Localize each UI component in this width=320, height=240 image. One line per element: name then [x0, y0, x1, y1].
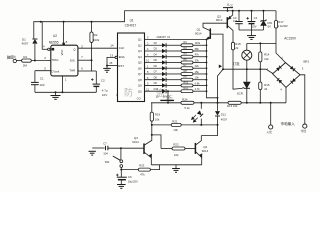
wire to R23: [121, 169, 138, 171]
wire Q3 collector: [144, 135, 152, 145]
svg-text:Q6: Q6: [138, 66, 142, 70]
resistor R18 2k: [231, 42, 234, 50]
capacitor C7 104: [105, 146, 107, 151]
node: R2 top: [91, 21, 93, 23]
svg-text:68k: 68k: [195, 47, 200, 51]
svg-text:Q3: Q3: [138, 49, 142, 53]
wire to R14: [259, 43, 261, 52]
svg-text:Q2: Q2: [138, 43, 142, 47]
wire rail to zener DW: [263, 11, 265, 21]
bridge diode lower-right: [291, 78, 296, 83]
svg-text:AC220V: AC220V: [284, 37, 297, 41]
wire to R22: [152, 135, 161, 149]
svg-text:10µ/25V: 10µ/25V: [128, 180, 138, 184]
wire common line (R24 / R13): [151, 102, 181, 104]
svg-text:33k: 33k: [195, 58, 200, 62]
svg-text:市电输入: 市电输入: [281, 121, 296, 126]
svg-text:11k: 11k: [264, 57, 269, 61]
svg-text:14: 14: [110, 44, 114, 48]
svg-text:Q7: Q7: [138, 72, 142, 76]
wire to C2: [95, 71, 97, 84]
wire plate to R1: [17, 60, 22, 62]
wire line to R19: [151, 103, 153, 112]
svg-text:2M: 2M: [23, 63, 28, 67]
resistor R9 10k: [181, 78, 193, 81]
svg-text:10k: 10k: [195, 76, 200, 80]
wire C7 to Q3 base: [108, 147, 144, 149]
wire joining C3 C4 DW bottoms: [239, 29, 264, 31]
svg-text:47k: 47k: [140, 173, 145, 177]
svg-text:C4: C4: [254, 16, 258, 20]
svg-text:D12: D12: [221, 112, 227, 116]
node pin7 DIS: [91, 59, 93, 61]
wire collector jog to D12 node: [201, 125, 217, 136]
svg-text:DW: DW: [267, 21, 272, 25]
diode D1 1N4007: [32, 38, 37, 40]
bus wire collecting ladder rows: [206, 40, 208, 92]
svg-text:C1: C1: [40, 77, 44, 81]
terminal: touch electrode: [13, 59, 16, 62]
wire Q1 base down to lamp line: [211, 34, 223, 69]
wire RST pin15: [107, 65, 118, 67]
wire rail to C4: [251, 11, 253, 22]
resistor R2 100k: [90, 32, 93, 43]
ground: [103, 67, 111, 69]
wire Q1 collector to Q2 base: [203, 23, 227, 30]
diode D8: [162, 78, 166, 82]
svg-text:4007: 4007: [221, 118, 228, 122]
svg-text:U2: U2: [53, 34, 57, 38]
svg-text:4.7k: 4.7k: [195, 87, 201, 91]
wire rail to C3: [238, 11, 240, 22]
svg-text:防: 防: [124, 87, 133, 98]
wire R22 to Q4 base: [185, 148, 195, 150]
resistor R4 68k: [181, 50, 193, 53]
svg-text:9012: 9012: [216, 18, 223, 22]
LED (photo diode) branch: [200, 102, 202, 104]
svg-text:CVvolt: CVvolt: [51, 70, 59, 74]
node: pin4 tie to rail: [40, 21, 42, 23]
svg-text:16VCC: 16VCC: [163, 95, 171, 99]
wire lamp bottom line to bridge left: [223, 69, 273, 73]
svg-text:10: 10: [146, 59, 150, 63]
thyristor SCR: [244, 82, 250, 88]
diode D10: [162, 89, 166, 93]
svg-text:C7: C7: [103, 142, 107, 146]
svg-text:R2: R2: [94, 33, 98, 37]
ground: [117, 184, 126, 186]
wire switch to C6 node: [120, 167, 122, 169]
svg-text:Q9: Q9: [138, 84, 142, 88]
wire DIS pin7: [78, 59, 92, 61]
node: pin8 tie: [63, 21, 65, 23]
svg-text:R1: R1: [23, 55, 27, 59]
node ENA/RST: [106, 65, 108, 67]
resistor R19 10k: [150, 112, 153, 121]
lamp (bulb with X): [246, 43, 248, 50]
resistor R7 22k: [181, 67, 193, 70]
wire plug to common line: [270, 103, 272, 125]
wire to ground: [55, 92, 57, 95]
diode D2: [162, 43, 166, 47]
ground: [172, 168, 180, 170]
wire CV pin5: [35, 70, 51, 72]
svg-text:DIS: DIS: [70, 58, 75, 62]
svg-text:47k: 47k: [195, 53, 200, 57]
resistor R14 11k: [259, 52, 262, 62]
wire J down to R13 line: [218, 69, 224, 103]
wire SCR anode: [246, 69, 248, 82]
wire to R15: [259, 69, 261, 82]
svg-text:火线: 火线: [267, 130, 273, 134]
svg-text:R21: R21: [172, 119, 178, 123]
ground: [89, 150, 96, 152]
svg-text:RST: RST: [118, 64, 124, 68]
diode D5: [162, 60, 166, 64]
svg-text:R23: R23: [139, 164, 145, 168]
svg-text:C6: C6: [128, 175, 132, 179]
svg-text:R14: R14: [264, 52, 270, 56]
svg-text:D10: D10: [154, 88, 159, 91]
svg-text:9014: 9014: [195, 31, 202, 35]
svg-text:CLK: CLK: [119, 46, 125, 50]
inversion bubble pin4: [48, 48, 50, 50]
wire to ground: [175, 165, 177, 169]
wire bridge bottom to common line: [285, 87, 287, 102]
svg-text:6V: 6V: [268, 25, 271, 29]
wire rail to R2: [91, 22, 93, 32]
svg-text:10k: 10k: [174, 153, 179, 157]
wire rail to R17: [275, 11, 277, 21]
wire ground to C7: [92, 147, 104, 149]
svg-text:100k: 100k: [93, 38, 100, 42]
svg-text:1N4007 ×9: 1N4007 ×9: [156, 35, 170, 39]
wire R1 to TRIG pin2: [31, 60, 51, 62]
wire to ground: [251, 30, 253, 36]
wire to D12: [217, 103, 219, 111]
resistor R11 4.7k: [181, 90, 193, 93]
svg-text:ENA: ENA: [119, 55, 125, 59]
resistor R17 1.1k/3W: [274, 20, 277, 28]
svg-text:VCC: VCC: [60, 49, 64, 55]
svg-text:13: 13: [110, 54, 114, 58]
svg-text:R17: R17: [278, 20, 284, 24]
wire bridge right to mains plug: [300, 75, 305, 124]
svg-text:Q8: Q8: [138, 78, 142, 82]
resistor R22 10k: [172, 147, 185, 150]
svg-text:CC: CC: [230, 4, 234, 7]
svg-text:SCR: SCR: [237, 92, 243, 96]
svg-text:9014: 9014: [132, 140, 139, 144]
Q1 emitter arrow to bus: [207, 37, 210, 40]
diode D6: [162, 66, 166, 70]
resistor R21 10k: [171, 123, 181, 126]
svg-text:15: 15: [109, 61, 113, 65]
svg-text:NE555: NE555: [49, 40, 59, 44]
wire rail to 555 pin4: [41, 22, 43, 50]
node SW tap: [120, 147, 122, 149]
svg-text:4007: 4007: [22, 41, 29, 45]
wire Q2 emitter to rail: [228, 11, 233, 20]
svg-text:R11: R11: [184, 87, 189, 90]
svg-text:1.1k/3W: 1.1k/3W: [278, 24, 288, 28]
wire rail to 555 pin8 VCC: [63, 22, 65, 46]
svg-text:22k: 22k: [195, 64, 200, 68]
switch lever: [113, 156, 121, 160]
inversion bubble ENA: [115, 56, 117, 58]
wire Q2 collector to R18: [228, 26, 233, 43]
svg-text:Q4: Q4: [138, 55, 142, 59]
wire ENA to ground: [107, 57, 115, 68]
bridge diode lower-left: [277, 78, 282, 83]
wire R18 to SCR gate: [233, 50, 242, 89]
resistor R23 47k: [138, 168, 150, 171]
svg-text:4.7µ: 4.7µ: [102, 89, 108, 93]
svg-text:104: 104: [103, 152, 108, 156]
svg-text:10k: 10k: [173, 128, 178, 132]
svg-text:5.1k: 5.1k: [184, 106, 190, 110]
capacitor C3 103: [235, 21, 242, 23]
resistor R6 33k: [181, 61, 193, 64]
svg-text:110k: 110k: [195, 41, 201, 45]
node D1/TRIG: [34, 60, 36, 62]
svg-text:103: 103: [39, 83, 44, 87]
counter U1 CD4017 box: [118, 33, 145, 102]
switch SW contact bottom: [120, 165, 123, 168]
diode D7: [162, 72, 166, 76]
wire Q3 emitter: [144, 152, 151, 157]
diode D3: [162, 49, 166, 53]
svg-text:9014: 9014: [202, 149, 209, 153]
svg-text:25V: 25V: [252, 24, 257, 28]
svg-text:16V: 16V: [102, 93, 107, 97]
svg-text:15k: 15k: [195, 70, 200, 74]
svg-text:6.8k: 6.8k: [195, 81, 201, 85]
svg-text:Q5: Q5: [138, 61, 142, 65]
capacitor C1 103: [31, 81, 39, 83]
svg-text:103: 103: [233, 20, 238, 23]
wire R2 to DIS/THR: [91, 43, 93, 72]
wire R21 line: [152, 124, 171, 126]
wire emitter line: [151, 164, 201, 166]
bridge diode upper-left: [276, 66, 281, 71]
svg-text:R10: R10: [184, 81, 189, 84]
svg-text:SW: SW: [105, 160, 110, 164]
svg-text:C2: C2: [101, 79, 105, 83]
ground: [51, 95, 61, 97]
svg-text:R22: R22: [173, 142, 179, 146]
wire R23 to emitter line: [150, 165, 159, 170]
wire to R22: [161, 148, 172, 150]
wire ground rail under 555: [35, 91, 96, 93]
capacitor C2 4.7u electrolytic: [93, 83, 101, 85]
svg-text:零线: 零线: [301, 129, 307, 133]
pin squares: [52, 48, 55, 51]
svg-text:TRIG: TRIG: [52, 58, 60, 62]
svg-text:R13 10k: R13 10k: [227, 104, 238, 108]
svg-text:2k: 2k: [235, 46, 239, 50]
svg-text:CD4017: CD4017: [125, 23, 137, 27]
wire to C6: [120, 170, 122, 177]
wire to bridge top corner: [276, 43, 286, 62]
node Q3 collector / R19: [151, 134, 153, 136]
op-amp/timer U2 NE555 box: [51, 45, 78, 76]
terminal plug N: [303, 124, 307, 128]
diode D9: [162, 83, 166, 87]
wire to switch: [120, 148, 122, 160]
wire THR pin6: [78, 70, 92, 72]
svg-text:R24: R24: [182, 98, 188, 102]
resistor R5 47k: [181, 55, 193, 58]
transistor Q4 9014: [194, 143, 196, 154]
capacitor C6 10u/25V electrolytic: [117, 176, 127, 178]
resistor R8 15k: [181, 73, 193, 76]
bridge rectifier BR1: [273, 63, 300, 88]
svg-text:灯泡: 灯泡: [233, 61, 240, 66]
svg-text:THR: THR: [69, 69, 75, 73]
wire R17 to lamp line: [275, 28, 277, 43]
svg-text:10k: 10k: [155, 117, 160, 121]
transistor Q1 9014: [209, 28, 211, 39]
switch SW contact top: [120, 160, 123, 163]
svg-text:触摸片: 触摸片: [7, 55, 16, 60]
diode D4: [162, 55, 166, 59]
wire: upper-left VCC rail: [34, 11, 276, 39]
wire Q4 collector: [196, 136, 202, 145]
wire lamp top line: [247, 42, 276, 44]
wire 555 pin1 to ground rail: [61, 76, 63, 92]
node J: [222, 68, 224, 70]
resistor R15 2k: [259, 82, 262, 90]
resistor R10 6.8k: [181, 84, 193, 87]
wire 555 Q pin3 to CD4017 CLK: [78, 47, 118, 49]
zener diode DW 6V: [261, 20, 266, 22]
resistor R3 110k: [181, 44, 193, 47]
wire D1 to TRIG node: [34, 44, 36, 61]
small arrow mark at node B: [219, 65, 221, 67]
resistor R1 2M: [22, 59, 32, 62]
terminal plug L: [269, 125, 273, 129]
svg-text:11: 11: [146, 87, 149, 91]
ground: [247, 35, 256, 37]
terminal 16 VCC tap: [167, 90, 169, 92]
svg-text:Q1: Q1: [138, 38, 142, 42]
wire Q4 emitter: [196, 152, 202, 158]
resistor R13 10k: [228, 101, 241, 104]
wire bus bottom jog to common vertical: [207, 91, 218, 103]
wire C1 to ground rail: [34, 85, 36, 93]
bridge diode upper-right: [290, 66, 295, 71]
transistor Q2 9012: [226, 17, 228, 28]
svg-text:Q0: Q0: [138, 89, 142, 93]
svg-text:R19: R19: [155, 113, 161, 117]
LED arrows: [192, 115, 196, 119]
resistor R24 5.1k: [181, 101, 194, 104]
capacitor C4 electrolytic 25V: [248, 21, 256, 23]
svg-text:U1: U1: [130, 18, 134, 22]
svg-text:BR1: BR1: [304, 59, 310, 63]
transistor Q3 9014: [143, 143, 145, 154]
diode D12 4007: [215, 111, 220, 116]
